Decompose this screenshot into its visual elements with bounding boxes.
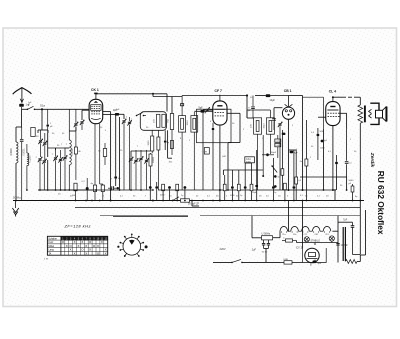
svg-text:0,0002: 0,0002	[72, 148, 74, 156]
resistor R 1W	[74, 183, 77, 191]
svg-text:50μF: 50μF	[271, 152, 277, 154]
svg-text:CK 1: CK 1	[91, 88, 99, 92]
wire CB1 stem	[288, 96, 290, 108]
resistor R osc	[74, 147, 77, 154]
svg-text:C1b: C1b	[293, 234, 296, 236]
capacitor 1uF top	[47, 109, 49, 124]
trimmer osc top	[74, 123, 77, 125]
tube CF7	[213, 101, 227, 125]
wire CK1 top stem	[95, 94, 97, 100]
wire mains 2	[242, 261, 280, 263]
wire CL4 left in	[318, 116, 326, 118]
capacitor bot 156	[155, 186, 158, 189]
svg-text:X: X	[101, 240, 103, 244]
capacitor uCL4 2	[321, 140, 324, 143]
svg-text:2m: 2m	[259, 196, 262, 198]
resistor cathode	[101, 185, 104, 192]
wire low links	[131, 151, 151, 158]
svg-text:CL 4: CL 4	[329, 90, 336, 94]
svg-text:U 50Hz: U 50Hz	[262, 231, 271, 235]
resistor u-282	[281, 169, 284, 176]
trimmer low 1	[129, 158, 132, 160]
wire heater bus drop	[251, 216, 253, 238]
wire IF1 top	[181, 96, 183, 107]
wire col 115.7	[115, 114, 117, 186]
capacitor under 110	[111, 186, 113, 190]
wire bf left	[119, 114, 124, 119]
trimmer mid 3	[63, 156, 66, 158]
svg-text:10000: 10000	[153, 156, 155, 163]
IF can box 1	[179, 116, 186, 133]
wire 9pFb leads	[194, 110, 213, 112]
resistor uCF7 c	[237, 184, 240, 191]
barretter box	[262, 236, 273, 240]
capacitor blob 291	[290, 151, 294, 153]
resistor u-CB1 c	[295, 177, 298, 184]
coil 3000b	[157, 137, 160, 150]
wire antenna bus	[22, 108, 91, 110]
wire x247 links	[247, 110, 270, 118]
wire antenna down-lead	[16, 109, 22, 142]
wire CF7 bottom lead	[219, 125, 221, 201]
wire barretter in	[252, 237, 262, 239]
IF can box 3	[254, 118, 262, 134]
svg-text:7μF: 7μF	[343, 219, 348, 222]
choke DRS stack	[275, 139, 281, 142]
capacitor 0,1 r	[345, 161, 349, 163]
rotary wave switch dial	[123, 238, 141, 256]
capacitor CF7 kath	[212, 128, 215, 131]
trimmer low 3	[139, 157, 142, 159]
capacitor x253	[252, 96, 254, 107]
resistor cathode b	[93, 185, 96, 192]
choke upper	[286, 239, 293, 242]
trimmer mid 1	[54, 157, 57, 159]
wire mid links	[48, 148, 65, 150]
slant switch mid	[272, 166, 277, 173]
wire CL4 right out	[340, 113, 347, 129]
capacitor blob 283	[282, 133, 286, 135]
wire top link left col	[65, 127, 76, 148]
resistor bot 163	[162, 184, 165, 191]
wire CL4 bottom	[332, 126, 334, 190]
lamp 1	[304, 237, 309, 242]
svg-text:1013: 1013	[263, 123, 265, 129]
svg-text:1m: 1m	[169, 196, 172, 198]
svg-text:5μF: 5μF	[317, 263, 321, 265]
bus y190	[38, 189, 334, 191]
wire mains in	[213, 261, 232, 263]
svg-text:50 μμF ZF: 50 μμF ZF	[188, 202, 200, 205]
resistor mains zigzag	[346, 260, 358, 264]
wire junction col	[38, 109, 48, 133]
trimmer CK1 left	[80, 121, 83, 123]
capacitor 9pF a	[115, 113, 119, 116]
svg-text:50 Mω: 50 Mω	[13, 196, 21, 200]
svg-text:0,0004: 0,0004	[10, 148, 13, 156]
svg-text:X: X	[77, 244, 79, 248]
switch table	[47, 236, 107, 255]
wire right rail	[359, 97, 361, 200]
wire top bus CK1-CF7	[96, 94, 167, 112]
tube CL4	[326, 102, 340, 126]
wire y95.5 to CB1	[255, 95, 289, 97]
wire x323.5 down	[323, 129, 325, 190]
svg-text:0,1250: 0,1250	[30, 155, 32, 163]
svg-text:X: X	[97, 244, 99, 248]
resistor left box	[31, 128, 35, 137]
capacitor antenna coupling	[19, 104, 24, 107]
svg-text:3000: 3000	[148, 140, 150, 146]
svg-text:DR8: DR8	[284, 259, 289, 261]
svg-text:0,0001: 0,0001	[24, 148, 26, 156]
svg-text:X: X	[70, 248, 72, 252]
choke DRS lower	[284, 261, 292, 264]
capacitor dot 275a	[274, 175, 277, 178]
capacitor bot 184	[184, 186, 187, 189]
coil L3 osc	[69, 140, 71, 165]
field coil zigzag	[358, 105, 363, 123]
junction CF7 top	[246, 94, 248, 96]
svg-text:CY2: CY2	[304, 234, 308, 236]
wire CK1 right out	[103, 112, 111, 201]
resistor uCF7 a	[223, 184, 226, 191]
capacitor uCF7 f	[255, 185, 258, 188]
svg-text:DR: DR	[204, 151, 208, 153]
svg-text:5000: 5000	[349, 180, 355, 182]
capacitor 0,0001 column	[21, 127, 23, 139]
capacitor 5uF blob	[313, 261, 317, 264]
svg-text:CF1: CF1	[325, 234, 329, 236]
capacitor x335 dot	[335, 162, 338, 165]
resistor DR box	[204, 148, 209, 155]
magnet chevrons	[369, 109, 372, 118]
svg-text:Lang: Lang	[48, 249, 54, 252]
wire x263 drop	[262, 135, 264, 176]
svg-text:X: X	[85, 251, 87, 255]
ground	[15, 201, 17, 209]
svg-text:10μF: 10μF	[270, 99, 276, 102]
wire hum top	[332, 216, 352, 263]
resistor 50uuF	[181, 199, 190, 202]
trimmer CB1 k	[278, 123, 281, 125]
svg-text:2μF: 2μF	[252, 249, 257, 252]
trimmer low 4	[145, 159, 148, 161]
wire zf drop	[192, 201, 199, 207]
capacitor CB1 left	[272, 118, 276, 120]
IF can box 2	[191, 116, 198, 133]
junction bus a	[110, 200, 112, 202]
tube CB1	[282, 107, 294, 119]
resistor DR mid	[170, 141, 173, 149]
capacitor 4u mid	[164, 140, 167, 143]
resistor bot 150	[149, 186, 152, 189]
svg-text:CB 1: CB 1	[284, 89, 292, 93]
trimmer CF7 left	[206, 108, 209, 110]
bandfilter box	[140, 112, 166, 131]
wire mains caps	[264, 249, 269, 263]
junction CF7 bot	[219, 189, 221, 191]
wire heater left	[273, 231, 280, 238]
wire col 119.5	[119, 117, 121, 190]
svg-text:RU 632 Oktoflex: RU 632 Oktoflex	[376, 171, 386, 235]
resistor bf in-box 1	[157, 114, 160, 127]
svg-text:Schalter: Schalter	[48, 237, 57, 240]
wire CF7 right out	[227, 113, 240, 190]
wire y96 over CF7	[153, 96, 182, 98]
wire CB1 top-right	[289, 96, 303, 191]
capacitor 10uF blob	[266, 94, 271, 97]
svg-text:1m: 1m	[278, 196, 281, 198]
bus y207.5	[75, 207, 360, 209]
tube CY2	[305, 248, 319, 262]
junction antenna bus	[41, 108, 43, 110]
svg-text:4m: 4m	[70, 196, 73, 198]
trimmer bf2	[128, 121, 131, 123]
trimmer mid 2	[59, 158, 62, 160]
svg-text:Dr: Dr	[300, 160, 303, 163]
capacitor 4u col	[114, 176, 117, 179]
wire y177 link	[300, 177, 347, 190]
svg-text:50 60: 50 60	[262, 251, 268, 253]
wire top bus CF7	[182, 95, 247, 97]
wire CB1 left	[274, 108, 282, 118]
power transformer	[342, 227, 344, 261]
wire y150 link	[289, 149, 297, 151]
junction CL4 top	[332, 96, 334, 98]
capacitor 9pF b	[200, 110, 204, 113]
svg-text:X: X	[89, 248, 91, 252]
trimmer C-ant 4	[43, 160, 46, 162]
svg-text:CA1: CA1	[246, 158, 251, 161]
capacitor mains b	[267, 242, 270, 244]
shield box CA1	[197, 109, 232, 143]
coil 10000	[149, 154, 152, 166]
capacitor mains a	[262, 242, 265, 244]
wire CY2 leads	[314, 259, 316, 262]
svg-text:CY 2: CY 2	[296, 245, 303, 249]
resistor bot 177	[176, 184, 179, 191]
wire CL4 top loop	[303, 96, 324, 98]
resistor Dr2	[305, 159, 308, 166]
wire CA1 out	[257, 149, 259, 151]
resistor u-CB1 a	[284, 183, 287, 190]
capacitor bot 169	[168, 186, 171, 189]
wire top spur x187	[152, 94, 154, 97]
wire col x47 down	[47, 133, 49, 190]
rect CY2 base	[303, 248, 327, 263]
speaker cone	[383, 107, 386, 121]
svg-text:Kurz: Kurz	[48, 241, 54, 244]
resistor 50 mid	[103, 149, 106, 157]
svg-text:220V: 220V	[220, 247, 226, 251]
svg-text:1013: 1013	[187, 120, 189, 126]
wire L1 to bus	[15, 163, 17, 201]
svg-text:4m: 4m	[216, 196, 219, 198]
trimmer low 2	[134, 159, 137, 161]
svg-text:2m: 2m	[326, 196, 329, 198]
wire x172 top	[171, 97, 173, 114]
coil 750	[170, 114, 173, 130]
svg-text:4μ: 4μ	[355, 196, 357, 198]
trimmer C-ant 1	[39, 140, 42, 142]
capacitor uCL4 1	[317, 134, 320, 137]
svg-text:Mittel: Mittel	[48, 245, 54, 248]
wire bf right down	[168, 130, 172, 158]
wire x247 down	[246, 96, 248, 119]
trimmer bf1	[122, 120, 125, 122]
switch S2	[137, 113, 143, 116]
switch S1a	[21, 107, 23, 109]
svg-text:X: X	[105, 251, 107, 255]
capacitor cathode 0,1uF	[86, 187, 89, 190]
wire x302-bottom	[289, 201, 303, 249]
bus main y200.5	[13, 200, 364, 202]
resistor uCF7 e	[250, 184, 253, 191]
svg-text:10,7μF: 10,7μF	[341, 245, 349, 247]
IF can box 4	[266, 118, 274, 134]
capacitor uCF7 d	[244, 186, 247, 189]
wire CK1 right 2	[103, 113, 116, 115]
capacitor 50uF	[266, 153, 269, 156]
svg-text:2m: 2m	[58, 194, 61, 196]
wire right rail low	[359, 201, 361, 255]
wire y163 link	[245, 162, 251, 164]
wire lamp link	[297, 241, 339, 246]
wire y170 link	[223, 170, 263, 175]
switch mains	[232, 259, 241, 262]
svg-text:CF 7: CF 7	[215, 89, 222, 93]
resistor low right	[351, 186, 354, 192]
black cap mid	[253, 186, 255, 188]
svg-text:X: X	[74, 251, 76, 255]
junction top wire	[152, 93, 154, 95]
capacitor u-273	[272, 186, 275, 189]
svg-text:X: X	[85, 244, 87, 248]
wire CF7 stem	[219, 95, 221, 101]
capacitor u-CB1 b	[293, 186, 296, 189]
junction x172	[171, 93, 173, 95]
label CA1	[245, 157, 255, 163]
wire sub-bus y190	[38, 189, 96, 191]
wire x335 down	[334, 190, 336, 201]
wire y97 to speaker	[333, 96, 360, 98]
capacitor dot 275b	[274, 185, 277, 188]
speaker magnet square	[376, 110, 383, 118]
wire CK1 left grid	[82, 110, 89, 120]
trimmer C-ant 3	[38, 158, 41, 160]
resistor bf in-box 2	[162, 114, 165, 127]
wire x365.5	[360, 210, 365, 255]
svg-text:Zerdik: Zerdik	[369, 152, 375, 168]
svg-text:1μ: 1μ	[240, 195, 242, 197]
bus y215.6 dashed	[100, 215, 360, 217]
coil L2	[27, 153, 29, 166]
svg-text:ZF=128 kHz: ZF=128 kHz	[64, 224, 91, 229]
svg-text:STABILO: STABILO	[311, 239, 321, 242]
svg-text:CB1: CB1	[314, 234, 318, 236]
speaker frame	[370, 103, 379, 124]
lamp 2	[329, 236, 334, 241]
tube CK1	[89, 99, 103, 123]
coil 3000	[151, 136, 154, 151]
heater chain coils	[280, 226, 288, 231]
wire y217 right	[113, 216, 188, 218]
output transformer bar	[364, 106, 366, 123]
wire CB1 bottom lead	[288, 119, 290, 190]
svg-text:X: X	[81, 240, 83, 244]
svg-text:S1a: S1a	[40, 104, 45, 108]
switch ZF	[173, 197, 180, 201]
svg-text:X: X	[66, 244, 68, 248]
svg-text:TA: TA	[48, 252, 51, 255]
capacitor uCF7 b	[231, 186, 234, 189]
wire transformer right	[357, 255, 360, 262]
capacitor 10,7uF	[336, 243, 339, 245]
antenna	[13, 88, 32, 95]
svg-text:1μ: 1μ	[181, 195, 183, 197]
bus junction dots	[41, 108, 43, 110]
coil L1 antenna	[16, 142, 18, 163]
svg-text:1μ: 1μ	[274, 192, 276, 194]
trimmer C-ant 2	[43, 142, 46, 144]
svg-text:X: X	[74, 240, 76, 244]
